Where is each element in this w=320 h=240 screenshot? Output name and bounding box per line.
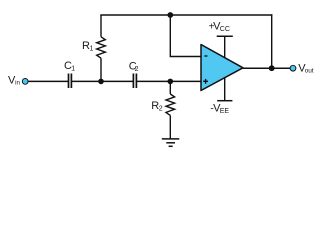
wire Vin to C1 bbox=[28, 80, 68, 82]
svg-text:1: 1 bbox=[90, 46, 94, 53]
op-amp U1 bbox=[201, 45, 243, 91]
label C1 bbox=[64, 60, 75, 73]
label -VEE bbox=[210, 102, 229, 114]
junction node A (R1 bottom) bbox=[98, 79, 104, 85]
svg-text:in: in bbox=[15, 80, 20, 87]
supply +VCC symbol bbox=[217, 36, 233, 58]
junction output node bbox=[269, 65, 275, 71]
node Vin label bbox=[8, 75, 20, 87]
op-amp inverting pin mark bbox=[204, 55, 207, 57]
capacitor C1 bbox=[69, 74, 72, 89]
capacitor C2 bbox=[133, 74, 136, 89]
svg-text:1: 1 bbox=[71, 66, 75, 73]
wire C1 to C2 bbox=[72, 80, 133, 82]
svg-text:out: out bbox=[305, 67, 314, 74]
label C2 bbox=[129, 60, 139, 73]
wire output to feedback bbox=[271, 14, 273, 68]
node Vin terminal bbox=[22, 79, 28, 85]
label R1 bbox=[82, 40, 94, 53]
resistor R1 bbox=[97, 15, 106, 81]
node Vout label bbox=[298, 62, 314, 74]
junction node B (R2 top) bbox=[168, 79, 174, 85]
label +VCC bbox=[209, 21, 230, 33]
node Vout terminal bbox=[290, 65, 296, 71]
svg-text:EE: EE bbox=[220, 108, 230, 115]
ground bbox=[162, 139, 180, 146]
label R2 bbox=[151, 100, 163, 113]
svg-text:2: 2 bbox=[135, 66, 139, 73]
svg-text:CC: CC bbox=[220, 26, 230, 33]
resistor R2 bbox=[166, 81, 175, 138]
svg-text:2: 2 bbox=[159, 105, 163, 112]
supply -VEE symbol bbox=[217, 77, 232, 101]
wire top feedback bbox=[100, 14, 272, 16]
junction top feedback node bbox=[167, 12, 173, 18]
wire feedback to inverting input bbox=[170, 15, 201, 57]
wire C2 to non-inverting input bbox=[137, 80, 201, 82]
wire output bbox=[243, 67, 290, 69]
op-amp non-inverting pin mark bbox=[203, 79, 208, 84]
